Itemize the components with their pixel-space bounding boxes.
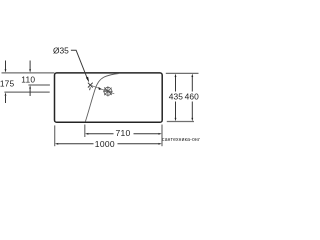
right top extension tick <box>166 72 199 74</box>
dimension 175 lower arrow <box>5 92 7 103</box>
right bottom extension tick <box>167 121 194 123</box>
dimension line 710 <box>85 133 162 135</box>
dimension line 460 <box>191 74 193 122</box>
svg-text:110: 110 <box>21 74 35 84</box>
bottom-left corner extension line <box>54 125 56 146</box>
svg-text:460: 460 <box>185 92 200 102</box>
dimension 175 upper arrow <box>5 61 7 73</box>
svg-text:сантехника-онлайн: сантехника-онлайн <box>162 136 200 143</box>
dimension line 435 <box>175 74 177 122</box>
countertop outline rectangle <box>55 73 163 122</box>
dimension 110 upper arrow <box>29 61 31 73</box>
small arrowhead on centerline <box>98 87 101 90</box>
svg-text:710: 710 <box>116 128 131 138</box>
extension line B (hole center, 110) <box>28 84 50 86</box>
curve-foot extension line <box>84 125 86 138</box>
leader line for Ø35 <box>71 50 88 80</box>
centerline from hole to drain <box>91 85 115 94</box>
drain hole hatched mark <box>103 86 112 96</box>
svg-text:1000: 1000 <box>95 139 115 149</box>
faucet hole cross mark <box>88 83 93 91</box>
extension line A (top edge extended left) <box>2 72 55 74</box>
svg-text:Ø35: Ø35 <box>53 46 69 56</box>
extension line C (drain center, 175) <box>4 91 49 93</box>
basin edge curve <box>85 74 119 122</box>
svg-text:175: 175 <box>0 79 15 89</box>
dimension 110 lower arrow <box>29 85 31 96</box>
leader arrowhead <box>86 77 89 83</box>
svg-text:435: 435 <box>169 92 184 102</box>
bottom-right corner extension line <box>161 125 163 147</box>
dimension line 1000 <box>55 143 162 145</box>
